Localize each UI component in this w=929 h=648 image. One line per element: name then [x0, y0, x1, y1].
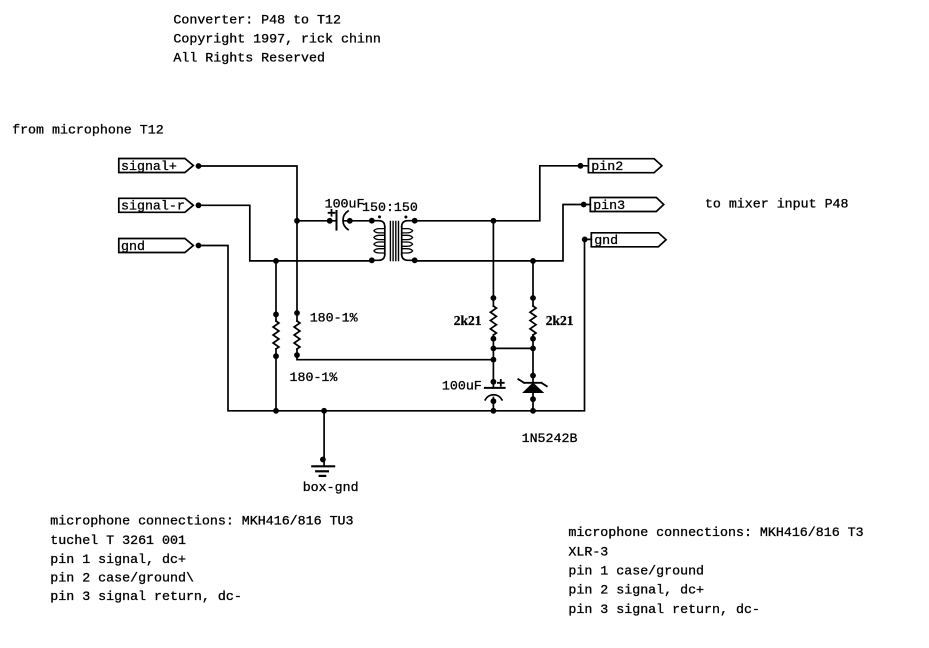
- svg-text:microphone connections: MKH416: microphone connections: MKH416/816 T3: [568, 525, 863, 540]
- svg-text:2k21: 2k21: [454, 313, 482, 328]
- svg-text:tuchel T 3261 001: tuchel T 3261 001: [50, 533, 186, 548]
- svg-text:microphone connections: MKH416: microphone connections: MKH416/816 TU3: [50, 513, 353, 528]
- svg-text:100uF: 100uF: [325, 196, 365, 211]
- svg-text:to mixer input P48: to mixer input P48: [705, 197, 849, 212]
- svg-text:pin 3 signal return, dc-: pin 3 signal return, dc-: [50, 589, 242, 604]
- svg-text:1N5242B: 1N5242B: [522, 431, 578, 446]
- svg-text:box-gnd: box-gnd: [303, 480, 359, 495]
- svg-text:180-1%: 180-1%: [290, 370, 338, 385]
- svg-text:signal+: signal+: [121, 159, 177, 174]
- svg-text:2k21: 2k21: [546, 313, 574, 328]
- svg-text:gnd: gnd: [121, 239, 145, 254]
- svg-text:pin3: pin3: [593, 198, 625, 213]
- svg-text:pin 2 signal, dc+: pin 2 signal, dc+: [568, 583, 704, 598]
- svg-text:from microphone T12: from microphone T12: [12, 123, 164, 138]
- svg-text:150:150: 150:150: [362, 200, 418, 215]
- svg-text:Copyright 1997, rick chinn: Copyright 1997, rick chinn: [173, 32, 380, 47]
- svg-text:pin 3 signal return, dc-: pin 3 signal return, dc-: [568, 602, 760, 617]
- svg-text:100uF: 100uF: [442, 379, 482, 394]
- svg-text:180-1%: 180-1%: [310, 311, 358, 326]
- svg-text:pin 1 signal, dc+: pin 1 signal, dc+: [50, 552, 186, 567]
- svg-text:pin2: pin2: [591, 159, 623, 174]
- svg-text:All Rights Reserved: All Rights Reserved: [173, 50, 325, 65]
- svg-text:gnd: gnd: [594, 233, 618, 248]
- svg-text:signal-r: signal-r: [121, 199, 185, 214]
- svg-text:XLR-3: XLR-3: [568, 544, 608, 559]
- svg-text:pin 2 case/ground\: pin 2 case/ground\: [50, 571, 194, 586]
- svg-text:Converter: P48 to T12: Converter: P48 to T12: [173, 13, 341, 28]
- svg-text:pin 1 case/ground: pin 1 case/ground: [568, 564, 704, 579]
